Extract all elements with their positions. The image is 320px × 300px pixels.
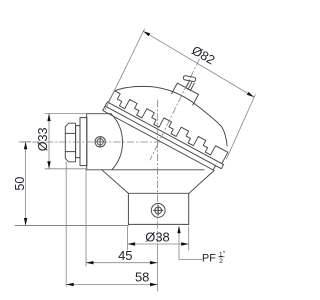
svg-text:58: 58 [135, 269, 149, 284]
gland collar [80, 118, 87, 166]
lower neck cylinder PF thread [128, 193, 188, 224]
svg-text:″: ″ [223, 250, 226, 257]
horizontal centerline [19, 141, 162, 143]
dome boss [172, 83, 199, 105]
cap dome silhouette [114, 86, 227, 146]
extension line from gland left [65, 162, 67, 287]
body screw [95, 137, 105, 147]
svg-text:2: 2 [219, 258, 223, 265]
cap rim strip lower [103, 106, 216, 170]
cap rim strip upper [105, 102, 223, 169]
vertical centerline [157, 100, 159, 245]
dia 82 dimension line [143, 31, 254, 97]
screw stem [186, 81, 195, 91]
svg-text:45: 45 [118, 248, 132, 263]
castellated band [108, 91, 228, 164]
PF 1/2 label [202, 250, 226, 265]
transition trapezoid [102, 170, 214, 194]
PF 1/2 leader [179, 227, 202, 260]
svg-text:Ø82: Ø82 [189, 43, 217, 68]
svg-text:50: 50 [13, 177, 27, 191]
bottom reference line [15, 225, 128, 227]
58 dimension [66, 284, 157, 286]
cap axis centerline [150, 59, 200, 160]
svg-text:Ø33: Ø33 [36, 127, 50, 151]
head body cylinder [87, 114, 204, 170]
50 dimension [21, 142, 31, 226]
vertical centerline extension [157, 245, 159, 291]
hex nut gland [65, 123, 75, 162]
dia 82 extension line right [227, 95, 256, 159]
svg-text:Ø38: Ø38 [145, 229, 170, 244]
extension line from body left [85, 169, 87, 267]
screw head [183, 75, 196, 81]
dia 82 extension line left [105, 29, 145, 110]
svg-text:PF: PF [202, 253, 216, 265]
gland neck [76, 126, 80, 158]
tilted cap assembly [103, 51, 251, 173]
dia 38 dimension [128, 227, 189, 251]
neck screw [151, 204, 165, 218]
45 dimension [86, 262, 158, 264]
dia 33 dimension [45, 114, 87, 169]
